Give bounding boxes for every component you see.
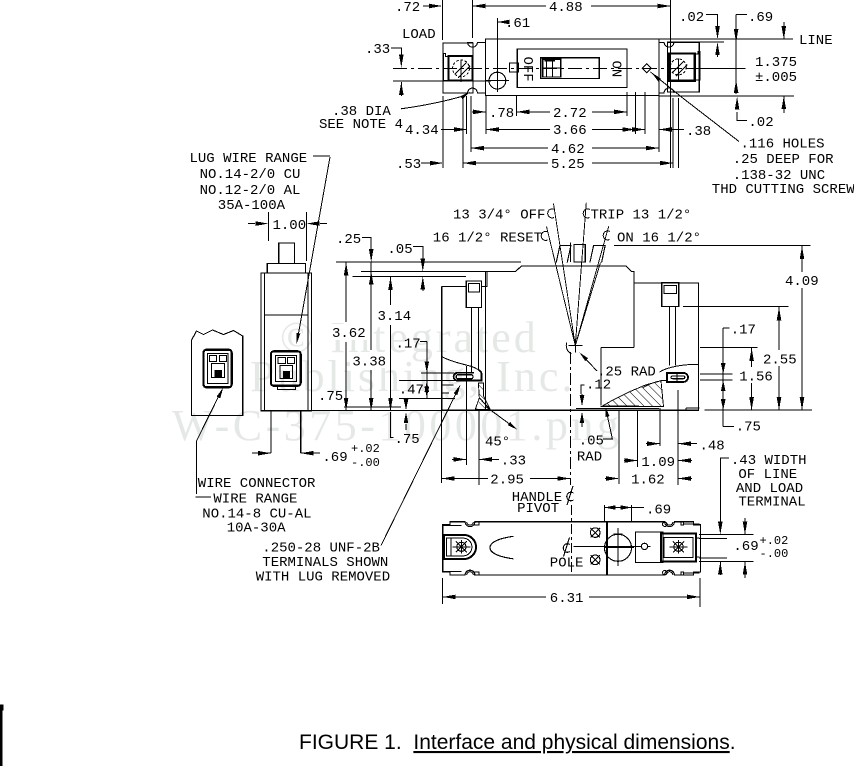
handle positions (556, 245, 605, 263)
svg-text:.48: .48 (700, 439, 725, 455)
svg-text:.75: .75 (318, 389, 343, 405)
left wire funnel curve (442, 357, 479, 371)
svg-text:LOAD: LOAD (402, 27, 436, 43)
svg-text:+.02: +.02 (760, 534, 789, 548)
right terminal box (669, 54, 695, 81)
dim .69 +.02 -.00 (lug stub) (258, 451, 271, 456)
leader from wire connector note (197, 391, 222, 495)
svg-text:2.95: 2.95 (490, 473, 524, 489)
svg-text:.69: .69 (733, 539, 758, 555)
left terminal screw (453, 60, 470, 77)
bottom view notch inner arcs (467, 522, 474, 525)
svg-text:1.09: 1.09 (641, 455, 675, 471)
lug side view: bottom stub (270, 411, 272, 453)
right mounting ear (667, 42, 699, 92)
svg-text:THD CUTTING SCREW: THD CUTTING SCREW (712, 182, 854, 198)
handle travel fan lines (554, 204, 576, 346)
svg-text:TERMINAL: TERMINAL (738, 495, 805, 511)
dim 1.00 (267, 212, 269, 241)
svg-text:3.14: 3.14 (378, 309, 412, 325)
right terminal clip (695, 51, 700, 79)
figure caption (299, 731, 736, 754)
svg-text:.02: .02 (748, 115, 773, 131)
leader terminals note (381, 387, 459, 546)
mounting hole crosshair (489, 72, 506, 89)
left mounting ear (443, 43, 473, 93)
left small dim ext lines (421, 372, 455, 374)
dim 2.55 (778, 307, 780, 411)
svg-text:+.02: +.02 (351, 442, 380, 456)
pole marker circle (641, 543, 647, 549)
svg-text:.69: .69 (322, 450, 347, 466)
svg-text:.17: .17 (731, 323, 756, 339)
svg-text:16 1/2° RESET: 16 1/2° RESET (433, 231, 542, 247)
left ear double edges and steps (443, 524, 461, 526)
terminal width ext lines (699, 534, 754, 536)
left lug hatch wedge and chamfer (475, 383, 490, 410)
svg-text:.47: .47 (399, 383, 424, 399)
dim 1.62 (606, 476, 619, 481)
svg-text:.33: .33 (501, 454, 526, 470)
wire connector view outline (192, 330, 243, 416)
left terminal box (449, 56, 473, 81)
svg-text:.05: .05 (579, 434, 604, 450)
right hatch ramp (602, 381, 664, 407)
left shelf lines (442, 384, 454, 386)
svg-text:WIRE CONNECTOR: WIRE CONNECTOR (198, 476, 316, 492)
svg-text:TRIP 13 1/2°: TRIP 13 1/2° (591, 208, 692, 224)
svg-text:3.62: 3.62 (332, 326, 366, 342)
rivets (590, 528, 600, 538)
svg-text:4.09: 4.09 (785, 274, 819, 290)
body outline (486, 39, 659, 96)
left bottom ext (312, 410, 442, 412)
scan artifact bar at left edge (0, 705, 3, 766)
dim 3.62 (345, 262, 347, 322)
svg-text:FIGURE 1. Interface and physi: FIGURE 1. Interface and physical dimensi… (299, 731, 736, 754)
C/L POLE label (564, 538, 570, 557)
svg-text:1.00: 1.00 (273, 218, 307, 234)
svg-text:±.005: ±.005 (755, 70, 797, 86)
watermark (172, 313, 622, 450)
svg-text:.02: .02 (679, 10, 704, 26)
dim .61 (497, 18, 499, 70)
right end steps (696, 537, 700, 539)
svg-text:2.55: 2.55 (763, 353, 797, 369)
pivot centerline (569, 352, 571, 485)
left attachment flange and notch (468, 42, 486, 47)
dim 5.25 and .53 (442, 96, 444, 168)
switch recess (517, 49, 627, 88)
svg-text:.12: .12 (586, 378, 611, 394)
left body inner line (485, 272, 487, 410)
dim .75 right (723, 426, 734, 428)
svg-text:4.62: 4.62 (551, 142, 585, 158)
dim .75 second (elbow) (391, 412, 394, 438)
dim .72 (441, 0, 443, 40)
svg-text:.38: .38 (686, 124, 711, 140)
left screw tower (466, 281, 481, 308)
left case pocket curve (490, 536, 514, 559)
lug side view: handle stub (279, 243, 295, 263)
top view load-side axis line (393, 80, 491, 82)
bottom view outline (443, 522, 701, 575)
dim .33 (453, 457, 466, 462)
svg-text:3.66: 3.66 (553, 123, 587, 139)
svg-text:.69: .69 (646, 503, 671, 519)
svg-text:.53: .53 (396, 157, 421, 173)
left lug (454, 370, 482, 381)
svg-text:35A-100A: 35A-100A (218, 198, 286, 214)
svg-text:.33: .33 (365, 42, 390, 58)
svg-text:SEE NOTE 4: SEE NOTE 4 (319, 117, 403, 133)
svg-text:NO.14-2/0 CU: NO.14-2/0 CU (200, 167, 301, 183)
right lug (667, 373, 688, 382)
svg-text:.116 HOLES: .116 HOLES (741, 137, 825, 153)
pole hole (605, 534, 632, 561)
lug side view: lug block (271, 351, 301, 386)
svg-text:10A-30A: 10A-30A (227, 521, 286, 537)
right screw box (662, 283, 679, 307)
dim 4.62 (658, 96, 660, 153)
svg-text:-.00: -.00 (760, 547, 789, 561)
cover seam (606, 522, 608, 575)
left dims .25 .05 (336, 261, 521, 263)
svg-text:1.56: 1.56 (739, 370, 773, 386)
bottom view right terminal box (661, 533, 696, 561)
svg-text:-.00: -.00 (351, 456, 380, 470)
bottom ext lines below side view (441, 410, 443, 483)
svg-text:LINE: LINE (799, 33, 833, 49)
bottom recess lines (576, 407, 659, 409)
left screw shaft (471, 307, 473, 372)
main side view outline (442, 266, 699, 410)
svg-text:ON 16 1/2°: ON 16 1/2° (617, 231, 701, 247)
svg-text:2.72: 2.72 (553, 106, 587, 122)
handle pivot centerline bottom view (571, 505, 573, 575)
recess tab (510, 63, 519, 72)
right side dims: ext lines (614, 245, 811, 247)
leader from lug note (313, 155, 330, 157)
svg-text:5.25: 5.25 (551, 157, 585, 173)
right attachment flange and notch (659, 42, 674, 47)
pivot arc .25 rad (566, 343, 571, 354)
hole diamond marker (642, 64, 651, 73)
switch knob (543, 59, 561, 77)
svg-text:.75: .75 (736, 420, 761, 436)
svg-text:.61: .61 (505, 16, 530, 32)
svg-text:OFF: OFF (519, 57, 535, 82)
dim 6.31 (442, 578, 444, 604)
dim 4.88 (472, 0, 474, 38)
svg-text:13 3/4° OFF: 13 3/4° OFF (453, 208, 545, 224)
dim 2.95 (442, 476, 455, 481)
right ear small circles and squares (663, 522, 667, 526)
svg-text:.25: .25 (336, 232, 361, 248)
dim 4.09 (801, 246, 803, 411)
svg-text:WITH LUG REMOVED: WITH LUG REMOVED (256, 570, 390, 586)
wire connector block (204, 350, 232, 388)
bottom view left terminal box (444, 535, 476, 559)
svg-text:4.34: 4.34 (405, 123, 439, 139)
top view horizontal centerline (393, 68, 736, 70)
right terminal screw (670, 59, 686, 75)
svg-text:.05: .05 (387, 242, 412, 258)
lug side view: cap (267, 264, 305, 273)
svg-text:LUG WIRE RANGE: LUG WIRE RANGE (190, 151, 308, 167)
svg-text:PIVOT: PIVOT (517, 501, 559, 517)
dim 1.09 (625, 458, 638, 463)
dim .69 pole hole (604, 505, 606, 522)
svg-text:3.38: 3.38 (352, 355, 386, 371)
svg-text:WIRE RANGE: WIRE RANGE (213, 492, 297, 508)
svg-text:.78: .78 (489, 106, 514, 122)
handle pivot cross (568, 345, 582, 347)
bottom view left screw (457, 542, 466, 551)
dim .48 (647, 441, 660, 446)
45 deg leader (485, 406, 515, 428)
svg-text:ON: ON (608, 61, 624, 78)
right wire funnel curve (660, 364, 699, 372)
svg-text:4.88: 4.88 (549, 0, 583, 16)
dim 3.14 (390, 276, 392, 305)
switch window (541, 58, 600, 79)
svg-text:RAD: RAD (577, 450, 602, 466)
dim 3.38 (370, 262, 372, 350)
right side reference lines (678, 98, 680, 168)
svg-text:NO.12-2/0 AL: NO.12-2/0 AL (200, 183, 301, 199)
bottom right corner step (686, 407, 700, 409)
svg-text:POLE: POLE (550, 556, 584, 572)
svg-text:.75: .75 (395, 432, 420, 448)
svg-text:.69: .69 (748, 10, 773, 26)
svg-text:1.62: 1.62 (631, 473, 665, 489)
lug side view: body (261, 273, 312, 411)
leader to .116 holes note (651, 72, 740, 142)
svg-text:.17: .17 (396, 337, 421, 353)
right screw shaft (669, 307, 671, 366)
dim .69 +.02 -.00 right (744, 518, 746, 535)
dim .78 and 2.72 (466, 96, 468, 134)
dim 1.56 (751, 347, 753, 410)
bottom view right screw (674, 542, 683, 551)
left terminal clip (443, 54, 448, 81)
right internal mold lines (633, 283, 635, 348)
svg-text:1.375: 1.375 (755, 55, 797, 71)
svg-text:.25 DEEP FOR: .25 DEEP FOR (733, 152, 834, 168)
dim 3.66 and .38 (634, 92, 636, 134)
bottom view right pocket (636, 532, 663, 563)
svg-text:45°: 45° (485, 435, 510, 451)
svg-text:.72: .72 (395, 0, 420, 16)
svg-text:6.31: 6.31 (550, 591, 584, 607)
